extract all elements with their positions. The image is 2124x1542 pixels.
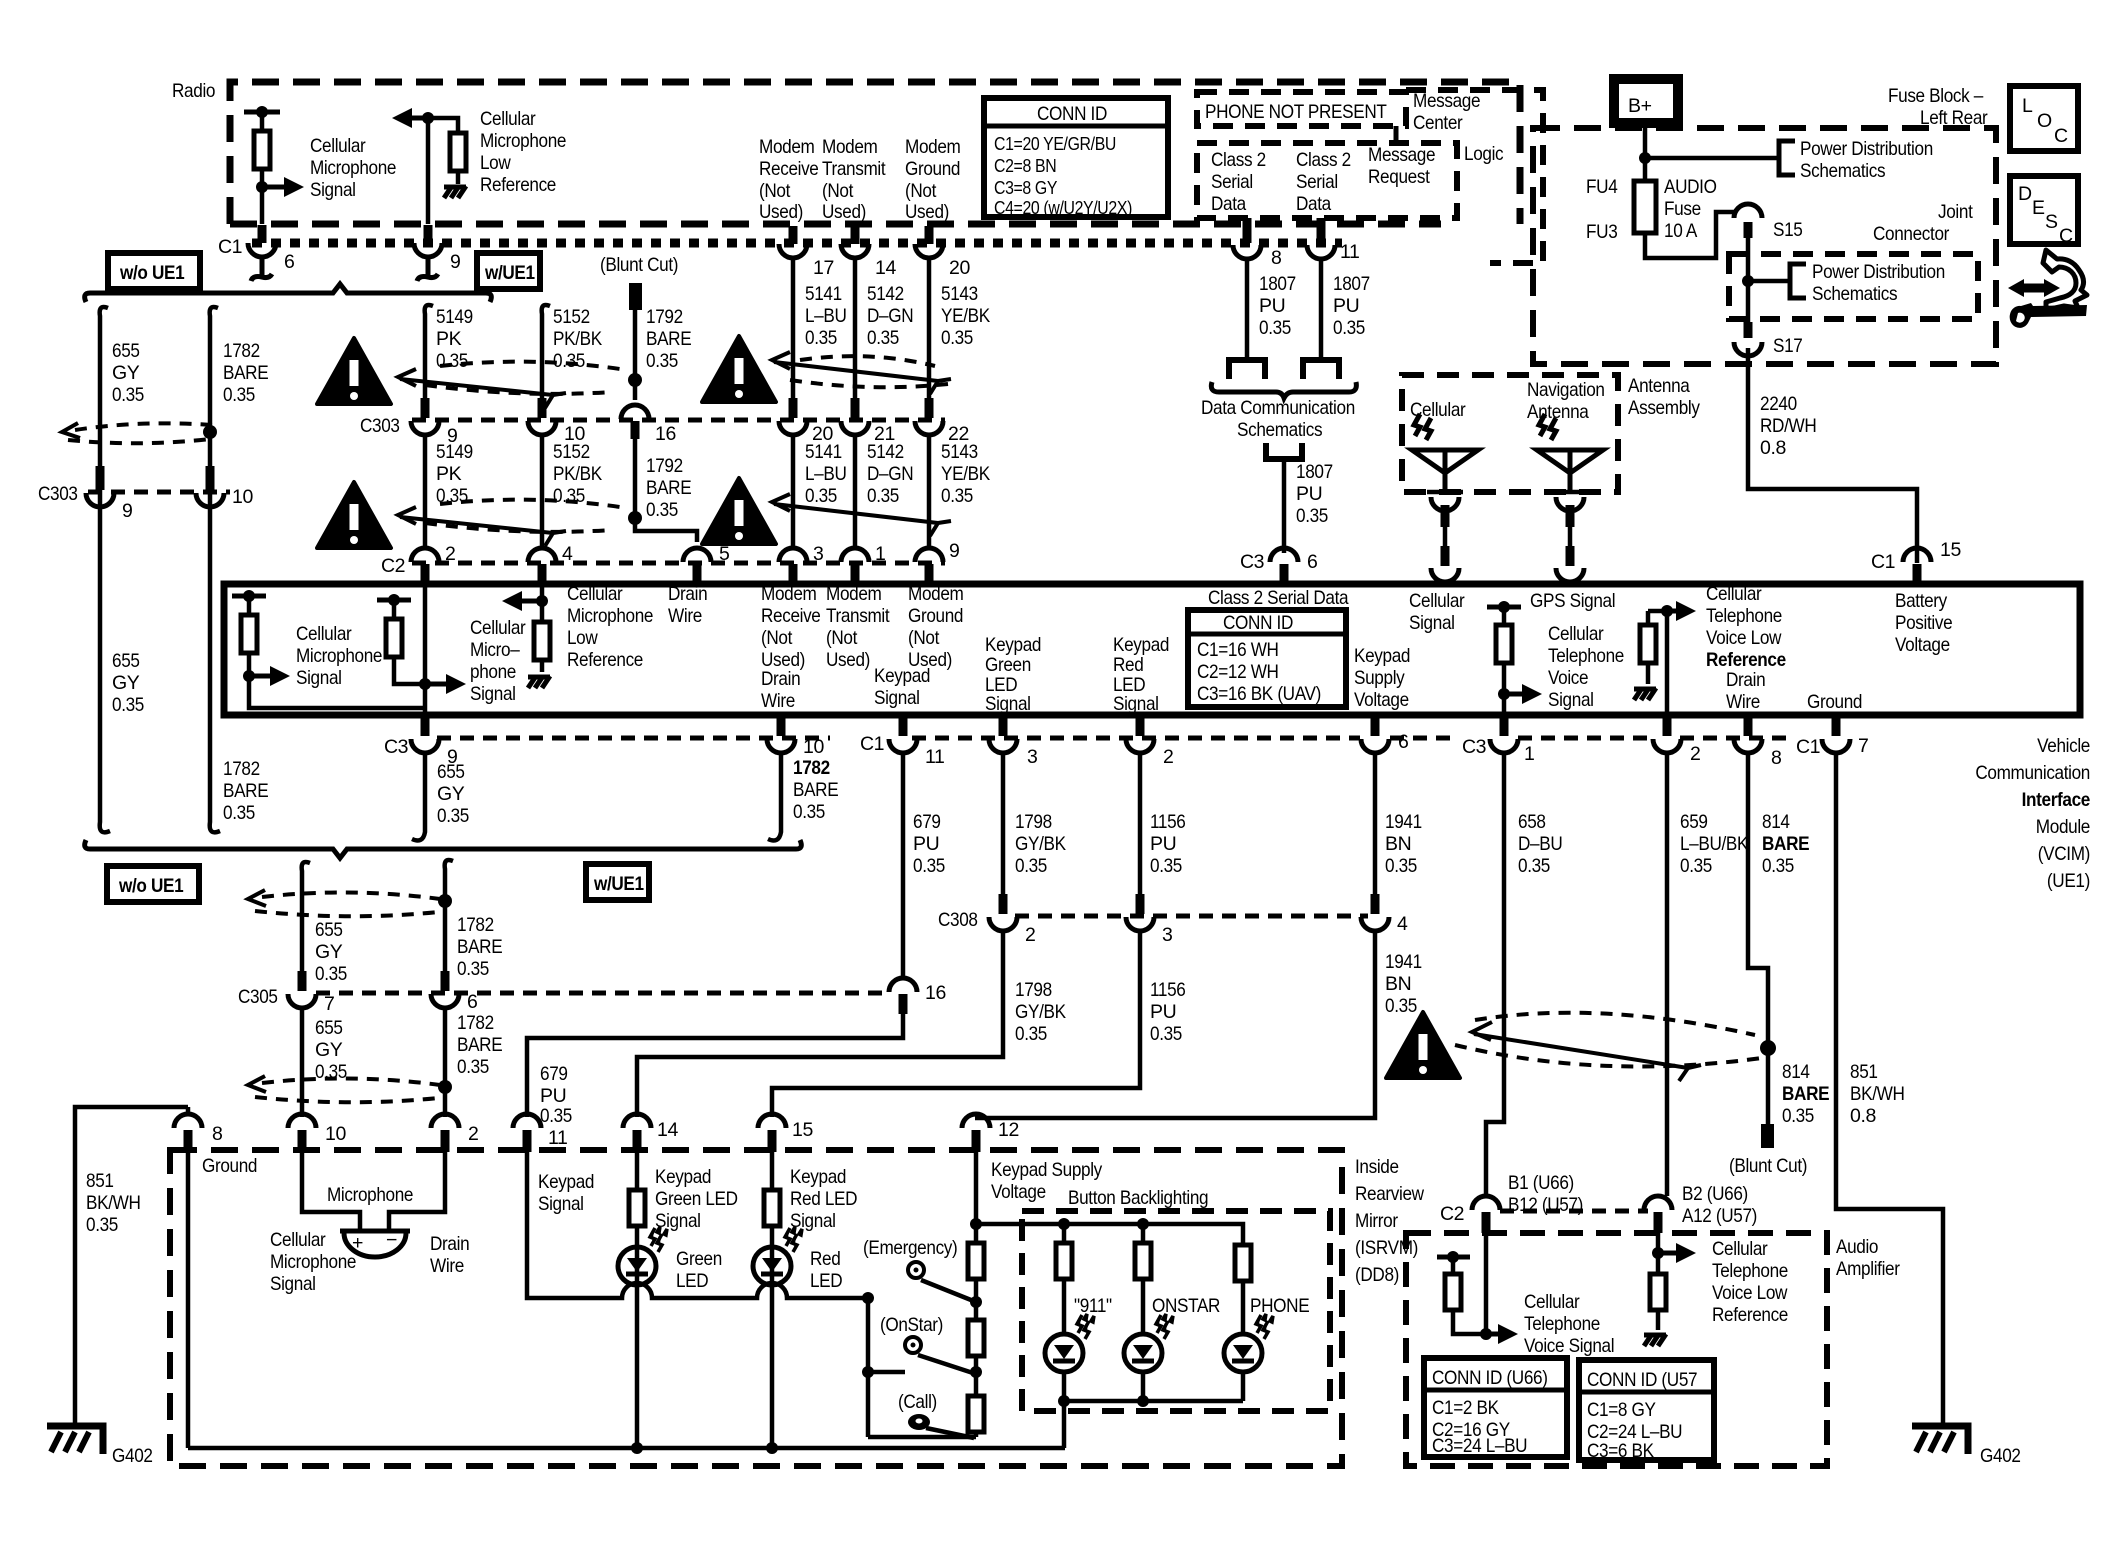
resistor R-mic-lowref (radio) bbox=[450, 133, 466, 171]
svg-text:Schematics: Schematics bbox=[1237, 419, 1323, 441]
message center dashed box edge bbox=[1406, 90, 1543, 263]
svg-text:Micro–: Micro– bbox=[470, 639, 520, 661]
svg-text:0.35: 0.35 bbox=[793, 801, 825, 823]
svg-text:Signal: Signal bbox=[985, 693, 1031, 715]
svg-text:0.35: 0.35 bbox=[1296, 505, 1328, 527]
svg-text:(OnStar): (OnStar) bbox=[880, 1314, 943, 1336]
svg-text:1798: 1798 bbox=[1015, 979, 1052, 1001]
svg-text:BARE: BARE bbox=[646, 477, 692, 499]
svg-text:PU: PU bbox=[1150, 1001, 1176, 1023]
twisted pair ellipse callout (upper mid) bbox=[398, 362, 620, 408]
connector pin 11 (class 2) bbox=[1317, 218, 1326, 243]
bracket power distribution 2 bbox=[1790, 264, 1806, 298]
wire 679 PU from VCIM pin 11 bbox=[901, 753, 906, 978]
svg-text:(DD8): (DD8) bbox=[1355, 1264, 1399, 1286]
svg-text:Cellular: Cellular bbox=[480, 108, 536, 130]
svg-text:11: 11 bbox=[548, 1127, 567, 1149]
svg-text:Keypad: Keypad bbox=[538, 1171, 594, 1193]
svg-text:C3: C3 bbox=[1462, 736, 1486, 758]
svg-text:Signal: Signal bbox=[1548, 689, 1594, 711]
wire 1807 PU left bbox=[1245, 259, 1250, 359]
svg-text:BN: BN bbox=[1385, 833, 1411, 855]
twisted pair ellipse callout (drain 814) bbox=[1455, 1013, 1762, 1081]
audio amplifier dashed box bbox=[1406, 1233, 1827, 1466]
node on 1792 wire (lower) bbox=[628, 511, 642, 525]
backlight return rail bbox=[1064, 1399, 1243, 1404]
svg-text:Battery: Battery bbox=[1895, 590, 1947, 612]
svg-text:1: 1 bbox=[1524, 743, 1534, 765]
svg-text:C1=8 GY: C1=8 GY bbox=[1587, 1399, 1656, 1421]
svg-text:BARE: BARE bbox=[1782, 1083, 1830, 1105]
svg-text:Signal: Signal bbox=[270, 1273, 316, 1295]
connector pin 3 (green led) bbox=[999, 716, 1008, 736]
tools icon (arrow + wrench) bbox=[2008, 250, 2087, 328]
terminal bracket to VCIM bbox=[1266, 443, 1302, 459]
arrow mic low reference (VCIM) bbox=[536, 595, 548, 607]
svg-text:C3=24 L–BU: C3=24 L–BU bbox=[1432, 1435, 1527, 1457]
resistor keypad supply chain 3 bbox=[968, 1396, 984, 1432]
svg-text:Message: Message bbox=[1413, 90, 1480, 112]
connector C305 pin 6 bbox=[441, 971, 450, 991]
svg-text:8: 8 bbox=[212, 1123, 222, 1145]
svg-text:Voice Low: Voice Low bbox=[1712, 1282, 1788, 1304]
svg-text:5149: 5149 bbox=[436, 441, 473, 463]
svg-text:Ground: Ground bbox=[202, 1155, 257, 1177]
svg-text:Transmit: Transmit bbox=[822, 158, 886, 180]
svg-text:9: 9 bbox=[122, 500, 132, 522]
svg-text:16: 16 bbox=[655, 423, 676, 445]
svg-text:PHONE: PHONE bbox=[1250, 1295, 1310, 1317]
svg-text:0.35: 0.35 bbox=[1762, 855, 1794, 877]
connector pin 15 (red led) bbox=[758, 1114, 786, 1128]
connector pin 10 (1782) bbox=[777, 716, 786, 736]
svg-text:6: 6 bbox=[1307, 551, 1317, 573]
ground mic low ref (VCIM) bbox=[528, 676, 550, 688]
svg-text:w/UE1: w/UE1 bbox=[484, 262, 535, 284]
svg-text:(Call): (Call) bbox=[898, 1391, 937, 1413]
svg-text:(Not: (Not bbox=[822, 180, 854, 202]
svg-text:Data Communication: Data Communication bbox=[1201, 397, 1355, 419]
svg-text:L: L bbox=[2022, 95, 2033, 117]
wire 5143 upper bbox=[927, 258, 932, 400]
CONN ID table (U57) bbox=[1579, 1360, 1714, 1462]
wire 1792 BARE upper (blunt cut) bbox=[629, 283, 642, 310]
svg-text:Supply: Supply bbox=[1354, 667, 1405, 689]
svg-text:0.35: 0.35 bbox=[553, 350, 585, 372]
svg-text:G402: G402 bbox=[1980, 1445, 2021, 1467]
connector B1/B12 bbox=[1472, 1196, 1500, 1210]
svg-text:C308: C308 bbox=[938, 909, 978, 931]
svg-text:A12 (U57): A12 (U57) bbox=[1682, 1205, 1757, 1227]
svg-text:Antenna: Antenna bbox=[1527, 401, 1589, 423]
connector C303 pin 16 (1792) bbox=[621, 405, 649, 419]
svg-text:C3=6 BK: C3=6 BK bbox=[1587, 1440, 1654, 1462]
svg-text:Joint: Joint bbox=[1938, 201, 1973, 223]
svg-text:Power Distribution: Power Distribution bbox=[1800, 138, 1933, 160]
svg-text:Modem: Modem bbox=[761, 583, 817, 605]
svg-text:C2=12 WH: C2=12 WH bbox=[1197, 661, 1279, 683]
svg-text:1782: 1782 bbox=[223, 758, 260, 780]
svg-text:GY/BK: GY/BK bbox=[1015, 1001, 1066, 1023]
node on 1782 (C305 lower) bbox=[438, 1080, 452, 1094]
wire 2240 RD/WH bbox=[1748, 348, 1917, 563]
svg-text:Red: Red bbox=[810, 1248, 840, 1270]
svg-text:2: 2 bbox=[445, 543, 455, 565]
svg-text:0.35: 0.35 bbox=[1333, 317, 1365, 339]
wire 5143 mid bbox=[927, 435, 932, 546]
svg-text:Keypad: Keypad bbox=[874, 665, 930, 687]
connector pin 14 (green led) bbox=[623, 1114, 651, 1128]
svg-text:0.35: 0.35 bbox=[223, 384, 255, 406]
svg-text:L–BU: L–BU bbox=[805, 463, 847, 485]
svg-text:5152: 5152 bbox=[553, 306, 590, 328]
terminal bracket right bbox=[1303, 360, 1339, 379]
svg-text:CONN ID (U66): CONN ID (U66) bbox=[1432, 1367, 1548, 1389]
connector pin 8 (814 drain) bbox=[1744, 716, 1753, 736]
svg-text:6: 6 bbox=[284, 251, 294, 273]
svg-text:Drain: Drain bbox=[1726, 669, 1765, 691]
wire to power distribution bbox=[1645, 156, 1779, 161]
svg-text:Power Distribution: Power Distribution bbox=[1812, 261, 1945, 283]
svg-text:Wire: Wire bbox=[668, 605, 702, 627]
svg-text:Green: Green bbox=[676, 1248, 722, 1270]
node joint connector junction bbox=[1742, 275, 1754, 287]
svg-text:GY: GY bbox=[112, 672, 140, 694]
svg-text:2: 2 bbox=[468, 1123, 478, 1145]
CONN ID table (U66) bbox=[1424, 1358, 1567, 1457]
svg-text:Telephone: Telephone bbox=[1524, 1313, 1600, 1335]
svg-text:G402: G402 bbox=[112, 1445, 153, 1467]
svg-text:4: 4 bbox=[562, 543, 573, 565]
svg-text:Message: Message bbox=[1368, 144, 1435, 166]
wire 1941 BN routed to keypad supply bbox=[975, 931, 1375, 1118]
svg-text:S: S bbox=[2045, 211, 2058, 233]
wire C2-4 to mic low ref resistor bbox=[540, 583, 545, 601]
svg-text:PU: PU bbox=[540, 1085, 566, 1107]
warning triangle (upper right) bbox=[702, 336, 776, 402]
svg-text:Cellular: Cellular bbox=[1548, 623, 1604, 645]
svg-text:Microphone: Microphone bbox=[270, 1251, 356, 1273]
splice S17 bbox=[1744, 322, 1753, 338]
svg-text:PK: PK bbox=[436, 328, 462, 350]
svg-text:Microphone: Microphone bbox=[327, 1184, 413, 1206]
svg-text:0.35: 0.35 bbox=[112, 384, 144, 406]
connector pin 8 (class 2) bbox=[1243, 218, 1252, 243]
connector C2 pin 1 bbox=[841, 548, 869, 562]
warning triangle (lower left) bbox=[317, 482, 391, 548]
connector pin 8 (ground) bbox=[186, 1107, 191, 1116]
svg-text:Keypad: Keypad bbox=[1354, 645, 1410, 667]
svg-text:S17: S17 bbox=[1773, 335, 1803, 357]
CONN ID table (radio) bbox=[984, 98, 1168, 218]
node on 1782 wire bbox=[203, 425, 217, 439]
svg-text:5143: 5143 bbox=[941, 441, 978, 463]
connector C308 pin 2 bbox=[999, 894, 1008, 914]
svg-text:0.35: 0.35 bbox=[1518, 855, 1550, 877]
svg-text:0.35: 0.35 bbox=[805, 327, 837, 349]
svg-text:Data: Data bbox=[1296, 193, 1331, 215]
twisted pair ellipse callout (C305 upper) bbox=[248, 890, 440, 916]
svg-text:Signal: Signal bbox=[310, 179, 356, 201]
connector pin 14 (modem transmit) bbox=[851, 226, 860, 244]
svg-text:Cellular: Cellular bbox=[270, 1229, 326, 1251]
wire 655 GY below C305 bbox=[300, 1008, 305, 1117]
svg-text:6: 6 bbox=[467, 991, 477, 1013]
terminal bracket left bbox=[1229, 360, 1265, 379]
node on 1792 wire (upper) bbox=[628, 373, 642, 387]
LED phone bbox=[1224, 1314, 1273, 1372]
svg-text:1782: 1782 bbox=[457, 1012, 494, 1034]
svg-text:Ground: Ground bbox=[905, 158, 960, 180]
wire 5141 mid bbox=[791, 435, 796, 546]
svg-text:Signal: Signal bbox=[296, 667, 342, 689]
svg-text:14: 14 bbox=[875, 257, 896, 279]
backlight column phone bbox=[1235, 1245, 1251, 1281]
svg-text:Button Backlighting: Button Backlighting bbox=[1068, 1187, 1208, 1209]
wire 1798 GY/BK from VCIM pin 3 bbox=[1001, 753, 1006, 896]
svg-text:w/o UE1: w/o UE1 bbox=[119, 262, 185, 284]
svg-text:Voice Low: Voice Low bbox=[1706, 627, 1782, 649]
svg-text:YE/BK: YE/BK bbox=[941, 463, 990, 485]
svg-text:1798: 1798 bbox=[1015, 811, 1052, 833]
svg-text:PU: PU bbox=[913, 833, 939, 855]
svg-text:PU: PU bbox=[1296, 483, 1322, 505]
bracket power distribution 1 bbox=[1779, 141, 1795, 175]
svg-text:(Not: (Not bbox=[908, 627, 940, 649]
svg-text:Navigation: Navigation bbox=[1527, 379, 1605, 401]
svg-text:Keypad: Keypad bbox=[790, 1166, 846, 1188]
svg-text:Interface: Interface bbox=[2022, 789, 2091, 811]
connector C305 pin 16 bbox=[889, 978, 917, 992]
svg-text:Microphone: Microphone bbox=[480, 130, 566, 152]
svg-text:0.35: 0.35 bbox=[223, 802, 255, 824]
svg-text:0.35: 0.35 bbox=[540, 1105, 572, 1127]
svg-text:8: 8 bbox=[1271, 247, 1281, 269]
svg-text:C3=8 GY: C3=8 GY bbox=[994, 178, 1057, 198]
svg-text:Telephone: Telephone bbox=[1712, 1260, 1788, 1282]
svg-text:814: 814 bbox=[1762, 811, 1790, 833]
svg-text:Voice: Voice bbox=[1548, 667, 1588, 689]
svg-text:Class 2: Class 2 bbox=[1296, 149, 1351, 171]
svg-text:9: 9 bbox=[450, 251, 460, 273]
svg-text:LED: LED bbox=[810, 1270, 843, 1292]
node on 814 wire bbox=[1760, 1040, 1776, 1056]
svg-text:GY: GY bbox=[112, 362, 140, 384]
wire 658 D-BU from VCIM C3-1 bbox=[1486, 753, 1504, 1196]
svg-text:C1: C1 bbox=[860, 733, 884, 755]
logic dashed box bbox=[1197, 143, 1457, 218]
svg-text:Telephone: Telephone bbox=[1706, 605, 1782, 627]
svg-text:Microphone: Microphone bbox=[296, 645, 382, 667]
svg-text:Wire: Wire bbox=[430, 1255, 464, 1277]
wire B2 down + node + arrow voice low ref bbox=[1656, 1233, 1661, 1274]
wire 5141 upper bbox=[791, 258, 796, 400]
wire 1807 PU right bbox=[1319, 259, 1324, 359]
svg-text:655: 655 bbox=[112, 650, 140, 672]
svg-text:Keypad: Keypad bbox=[655, 1166, 711, 1188]
svg-text:Signal: Signal bbox=[790, 1210, 836, 1232]
svg-text:Cellular: Cellular bbox=[1409, 590, 1465, 612]
connector C303 pin 22 bbox=[925, 398, 934, 418]
svg-text:Telephone: Telephone bbox=[1548, 645, 1624, 667]
svg-text:(Not: (Not bbox=[826, 627, 858, 649]
connector C303 pin 10 (left) bbox=[206, 466, 215, 490]
svg-text:CONN ID: CONN ID bbox=[1223, 612, 1293, 634]
svg-text:Assembly: Assembly bbox=[1628, 397, 1700, 419]
svg-text:(Blunt Cut): (Blunt Cut) bbox=[1729, 1155, 1807, 1177]
svg-text:Schematics: Schematics bbox=[1812, 283, 1898, 305]
svg-text:(Not: (Not bbox=[905, 180, 937, 202]
svg-text:D–GN: D–GN bbox=[867, 305, 913, 327]
svg-text:C1: C1 bbox=[1871, 551, 1895, 573]
svg-text:Reference: Reference bbox=[567, 649, 643, 671]
node radio mic signal + arrow bbox=[256, 181, 268, 193]
svg-text:Vehicle: Vehicle bbox=[2037, 735, 2090, 757]
svg-text:C3=16 BK (UAV): C3=16 BK (UAV) bbox=[1197, 683, 1321, 705]
svg-text:0.35: 0.35 bbox=[553, 485, 585, 507]
svg-text:L–BU/BK: L–BU/BK bbox=[1680, 833, 1748, 855]
svg-text:(Not: (Not bbox=[759, 180, 791, 202]
wire 679 PU routed to keypad signal bbox=[527, 1014, 903, 1117]
wire 1156 PU routed to red LED bbox=[772, 931, 1140, 1117]
svg-text:2: 2 bbox=[1025, 924, 1035, 946]
svg-text:Inside: Inside bbox=[1355, 1156, 1399, 1178]
svg-text:0.35: 0.35 bbox=[1385, 855, 1417, 877]
svg-text:Center: Center bbox=[1413, 112, 1463, 134]
svg-text:17: 17 bbox=[813, 257, 834, 279]
svg-text:FU4: FU4 bbox=[1586, 176, 1618, 198]
svg-text:C1=2 BK: C1=2 BK bbox=[1432, 1397, 1499, 1419]
svg-text:GY: GY bbox=[437, 783, 465, 805]
wire 851 BK/WH left bbox=[75, 1107, 188, 1428]
connector B2/A12 bbox=[1644, 1196, 1672, 1210]
wire 1792 lower bbox=[635, 439, 697, 542]
svg-text:PK: PK bbox=[436, 463, 462, 485]
connector pin 10 (mic signal) bbox=[288, 1114, 316, 1128]
svg-text:Voltage: Voltage bbox=[1354, 689, 1409, 711]
antenna assembly dashed box bbox=[1402, 375, 1618, 492]
ground rail bbox=[188, 1446, 1065, 1451]
svg-text:0.35: 0.35 bbox=[1015, 1023, 1047, 1045]
svg-text:16: 16 bbox=[925, 982, 946, 1004]
button backlighting dashed box bbox=[1022, 1211, 1330, 1411]
svg-text:11: 11 bbox=[925, 746, 944, 768]
svg-text:Modem: Modem bbox=[759, 136, 815, 158]
svg-text:Class 2 Serial Data: Class 2 Serial Data bbox=[1208, 587, 1349, 609]
blunt cut stub (814) bbox=[1761, 1124, 1774, 1148]
svg-text:(UE1): (UE1) bbox=[2047, 870, 2090, 892]
svg-text:7: 7 bbox=[324, 993, 334, 1015]
wire 1941 BN from VCIM pin 6 bbox=[1373, 753, 1378, 896]
svg-text:0.35: 0.35 bbox=[1150, 855, 1182, 877]
svg-text:Used): Used) bbox=[826, 649, 870, 671]
svg-text:Antenna: Antenna bbox=[1628, 375, 1690, 397]
resistor keypad supply chain 1 bbox=[968, 1243, 984, 1279]
svg-text:Class 2: Class 2 bbox=[1211, 149, 1266, 171]
svg-text:Connector: Connector bbox=[1873, 223, 1950, 245]
DESC reference box bbox=[2010, 176, 2078, 247]
wire C3-2 through box bbox=[1665, 611, 1670, 716]
warning triangle (drain 814) bbox=[1386, 1012, 1460, 1078]
connector C303 pin 10 (5152) bbox=[538, 398, 547, 418]
svg-text:15: 15 bbox=[1940, 539, 1961, 561]
svg-text:GY: GY bbox=[315, 941, 343, 963]
switch call bbox=[908, 1414, 930, 1430]
svg-text:0.35: 0.35 bbox=[867, 485, 899, 507]
svg-text:10: 10 bbox=[232, 486, 253, 508]
connector C2 pin 3 bbox=[779, 548, 807, 562]
svg-text:0.35: 0.35 bbox=[112, 694, 144, 716]
resistor mic low ref (VCIM) bbox=[540, 601, 545, 622]
svg-text:1782: 1782 bbox=[793, 757, 830, 779]
connector pin 2 (red led) bbox=[1136, 716, 1145, 736]
backlight column onstar bbox=[1141, 1224, 1146, 1243]
resistor R-mic-signal (radio) bbox=[244, 110, 280, 115]
svg-text:0.35: 0.35 bbox=[1680, 855, 1712, 877]
svg-text:D: D bbox=[2018, 183, 2032, 205]
svg-text:0.35: 0.35 bbox=[315, 963, 347, 985]
svg-text:D–GN: D–GN bbox=[867, 463, 913, 485]
supply rail to backlighting bbox=[976, 1224, 1243, 1245]
svg-text:4: 4 bbox=[1397, 913, 1408, 935]
svg-text:C3: C3 bbox=[1240, 551, 1264, 573]
svg-text:−: − bbox=[386, 1229, 397, 1251]
svg-text:PU: PU bbox=[1259, 295, 1285, 317]
svg-text:(Blunt Cut): (Blunt Cut) bbox=[600, 254, 678, 276]
svg-text:Request: Request bbox=[1368, 166, 1430, 188]
svg-text:Ground: Ground bbox=[908, 605, 963, 627]
svg-text:Keypad: Keypad bbox=[1113, 634, 1169, 656]
svg-text:PK/BK: PK/BK bbox=[553, 463, 602, 485]
C1 dotted connector row (radio) bbox=[252, 239, 1342, 248]
svg-text:0.35: 0.35 bbox=[1782, 1105, 1814, 1127]
svg-text:B+: B+ bbox=[1628, 95, 1652, 117]
keypad signal wire + rail with hops bbox=[527, 1152, 868, 1298]
node on 1782 (C305 upper) bbox=[438, 894, 452, 908]
connector pin 2 (drain) bbox=[431, 1114, 459, 1128]
svg-text:3: 3 bbox=[1027, 746, 1037, 768]
svg-text:Signal: Signal bbox=[655, 1210, 701, 1232]
B+ battery feed box bbox=[1614, 79, 1678, 123]
svg-text:BARE: BARE bbox=[223, 780, 269, 802]
svg-text:5143: 5143 bbox=[941, 283, 978, 305]
svg-text:GY: GY bbox=[315, 1039, 343, 1061]
svg-text:655: 655 bbox=[315, 1017, 343, 1039]
svg-text:0.35: 0.35 bbox=[457, 958, 489, 980]
svg-text:Signal: Signal bbox=[874, 687, 920, 709]
wire 5142 upper bbox=[853, 258, 858, 400]
svg-text:C1=20 YE/GR/BU: C1=20 YE/GR/BU bbox=[994, 134, 1116, 154]
brace data communication bbox=[1211, 382, 1356, 398]
svg-text:5142: 5142 bbox=[867, 441, 904, 463]
Radio module dashed box bbox=[230, 82, 1520, 224]
svg-text:Signal: Signal bbox=[470, 683, 516, 705]
svg-text:6: 6 bbox=[1398, 731, 1408, 753]
connector C2 pin 4 bbox=[528, 548, 556, 562]
ISRVM module dashed box bbox=[170, 1150, 1342, 1466]
wire B+ down bbox=[1643, 123, 1648, 181]
wire S15 to S17 bbox=[1746, 234, 1751, 322]
svg-text:Audio: Audio bbox=[1836, 1236, 1879, 1258]
svg-text:Keypad: Keypad bbox=[985, 634, 1041, 656]
svg-text:Mirror: Mirror bbox=[1355, 1210, 1398, 1232]
svg-text:Fuse Block –: Fuse Block – bbox=[1888, 85, 1983, 107]
svg-text:0.35: 0.35 bbox=[437, 805, 469, 827]
twisted pair ellipse callout (lower mid) bbox=[398, 500, 620, 546]
svg-text:w/o UE1: w/o UE1 bbox=[118, 875, 184, 897]
svg-text:814: 814 bbox=[1782, 1061, 1810, 1083]
svg-text:0.35: 0.35 bbox=[1259, 317, 1291, 339]
